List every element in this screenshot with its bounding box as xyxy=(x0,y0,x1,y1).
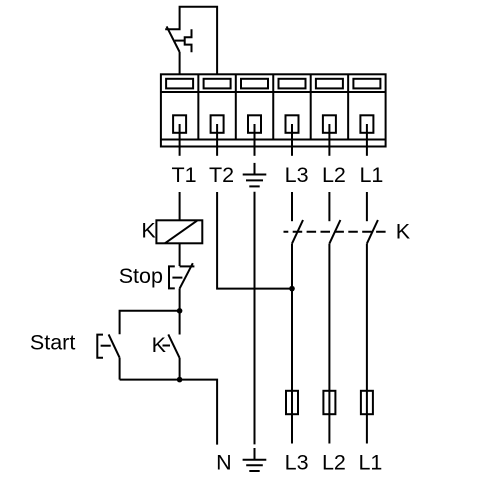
wire stop contact to node A xyxy=(179,289,181,311)
wire top loop from T1 up over to T2 xyxy=(165,7,217,75)
wire T1 to coil K xyxy=(179,192,181,220)
thermal overload actuator element xyxy=(185,29,192,52)
wire PE top ground to bottom ground xyxy=(254,192,256,445)
wire coil K to stop contact xyxy=(179,243,181,266)
coil K box xyxy=(156,220,202,243)
wire T2 down to L3 node xyxy=(217,192,292,289)
wire L2 terminal to contact xyxy=(328,192,330,221)
wire start contact to lower rail xyxy=(119,358,121,380)
svg-text:L2: L2 xyxy=(322,163,346,187)
terminal L2 screw xyxy=(323,115,336,133)
node C junction dot xyxy=(289,286,295,292)
terminal L3 screw xyxy=(286,115,299,133)
svg-text:Stop: Stop xyxy=(119,264,163,288)
start button actuator bracket xyxy=(97,335,103,358)
terminal block cell divider 1 xyxy=(197,74,199,139)
fuse F L3 xyxy=(286,391,298,414)
node A junction dot xyxy=(177,308,183,314)
terminal L1 screw xyxy=(360,115,373,133)
svg-text:L3: L3 xyxy=(285,450,309,474)
wire L3 terminal to contact xyxy=(291,192,293,221)
ground symbol upper xyxy=(243,163,267,187)
terminal block cell divider 4 xyxy=(310,74,312,139)
wire L1 contact to fuse and bottom xyxy=(366,244,368,444)
self-hold contact K blade xyxy=(168,334,179,358)
thermal actuator linkage xyxy=(175,40,185,42)
fuse F L1 xyxy=(361,391,373,414)
contactor contact K L1 blade xyxy=(367,220,378,244)
terminal T1 clamp window xyxy=(166,79,193,89)
terminal L1 clamp window xyxy=(353,79,380,89)
wire from thermal contact down to terminal T1 xyxy=(179,52,181,74)
wire L2 contact to fuse and bottom xyxy=(328,244,330,444)
terminal PE clamp window xyxy=(241,79,268,89)
terminal PE screw xyxy=(248,115,261,133)
stop contact fixed bar xyxy=(180,265,195,267)
stop contact blade xyxy=(180,263,193,288)
contactor contact K L3 blade xyxy=(292,220,303,244)
svg-text:L1: L1 xyxy=(358,450,382,474)
svg-text:T2: T2 xyxy=(209,163,234,187)
wire L2 terminal tail xyxy=(328,124,330,156)
wire L3 terminal tail xyxy=(291,124,293,156)
terminal block top divider xyxy=(161,91,386,93)
svg-text:K: K xyxy=(396,219,411,243)
start actuator linkage xyxy=(101,345,111,347)
terminal block inner bottom line xyxy=(161,139,386,141)
thermal overload contact blade xyxy=(167,26,180,52)
svg-text:L3: L3 xyxy=(285,163,309,187)
terminal block outline xyxy=(161,74,386,146)
wire self-hold contact to node B xyxy=(179,358,181,380)
terminal block cell divider 2 xyxy=(235,74,237,139)
svg-text:L2: L2 xyxy=(322,450,346,474)
contactor contact K L2 blade xyxy=(329,220,340,244)
stop actuator linkage xyxy=(172,277,182,279)
start contact blade xyxy=(109,334,120,357)
node B junction dot xyxy=(177,377,183,383)
terminal T2 screw xyxy=(211,115,224,133)
svg-text:T1: T1 xyxy=(172,163,197,187)
terminal block cell divider 3 xyxy=(272,74,274,139)
fuse F L2 xyxy=(323,391,335,414)
svg-text:Start: Start xyxy=(30,331,75,355)
stop button actuator bracket xyxy=(169,266,175,288)
wire node A to self-hold contact xyxy=(179,311,181,335)
wire PE terminal tail xyxy=(254,124,256,156)
self-hold linkage dash xyxy=(163,345,171,347)
wire upper rail to start branch xyxy=(120,311,180,334)
terminal L3 clamp window xyxy=(279,79,306,89)
wire L1 terminal to contact xyxy=(366,192,368,221)
terminal L2 clamp window xyxy=(316,79,343,89)
terminal T2 clamp window xyxy=(204,79,231,89)
svg-text:N: N xyxy=(216,450,232,474)
terminal block cell divider 5 xyxy=(347,74,349,139)
contactor linkage dashed line xyxy=(284,231,387,233)
wire L1 terminal tail xyxy=(366,124,368,156)
coil K diagonal xyxy=(165,221,197,244)
wire T1 terminal tail xyxy=(179,124,181,156)
wire lower rail to N xyxy=(120,380,218,445)
svg-text:L1: L1 xyxy=(359,163,383,187)
svg-text:K: K xyxy=(141,218,156,242)
wire T2 terminal tail xyxy=(216,124,218,156)
terminal T1 screw xyxy=(173,115,186,133)
wire L3 contact to fuse and bottom xyxy=(291,244,293,444)
ground symbol lower xyxy=(243,448,267,471)
